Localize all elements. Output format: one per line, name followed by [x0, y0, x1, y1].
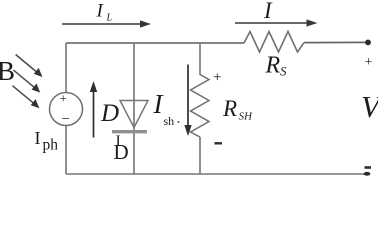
arrow: I_L (top left)	[62, 20, 151, 27]
svg-text:L: L	[106, 13, 113, 24]
label - at negative terminal	[365, 166, 372, 169]
label I_L	[96, 1, 113, 24]
label I_sh	[153, 89, 180, 128]
svg-text:D: D	[114, 140, 129, 164]
wire: top-right segment from Rs to positive terminal	[304, 41, 367, 43]
resistor R_SH zigzag	[191, 75, 210, 138]
wire: top horizontal bus from node A to series resistor	[66, 42, 244, 44]
current source I_ph circle	[50, 91, 83, 128]
arrow: light ray 3	[13, 86, 40, 109]
arrow: current-source direction (up)	[90, 81, 97, 138]
label B (irradiance)	[0, 56, 15, 86]
svg-text:+: +	[60, 91, 67, 106]
label R_SH	[222, 96, 253, 123]
wire: left branch lower segment	[65, 126, 67, 175]
resistor Rs zigzag	[244, 32, 304, 53]
label V (output voltage)	[361, 89, 378, 124]
wire: bottom return bus	[66, 173, 365, 175]
label I (output current)	[263, 0, 273, 23]
arrow: I_sh current (down)	[184, 65, 191, 137]
svg-text:+: +	[365, 55, 373, 70]
svg-text:V: V	[361, 89, 378, 124]
svg-text:B: B	[0, 56, 15, 86]
arrow: light ray 1	[16, 55, 43, 78]
svg-text:+: +	[213, 70, 221, 86]
arrow: light ray 2	[13, 70, 40, 93]
arrow: I (top right)	[235, 19, 318, 26]
svg-text:D: D	[100, 100, 119, 127]
wire: diode branch vertical (through)	[133, 43, 135, 174]
label I_ph	[35, 128, 59, 154]
wire: shunt branch lower segment	[199, 137, 201, 174]
wire: shunt branch upper segment	[199, 43, 201, 75]
svg-text:S: S	[280, 64, 287, 79]
diode D cathode bar	[112, 130, 147, 133]
svg-text:I: I	[96, 1, 105, 22]
label I_D	[114, 133, 129, 164]
diode D triangle	[120, 101, 148, 128]
svg-text:I: I	[35, 128, 41, 148]
node: positive output terminal dot	[365, 40, 371, 46]
label + at positive terminal	[365, 55, 373, 70]
label + at R_SH top	[213, 70, 221, 86]
label R_s	[265, 53, 288, 79]
label D (diode)	[100, 100, 119, 127]
svg-text:I: I	[263, 0, 273, 23]
svg-text:R: R	[222, 96, 237, 121]
label - at R_SH bottom	[215, 142, 223, 144]
wire: left branch upper segment	[65, 43, 67, 93]
node: negative terminal end mark	[364, 172, 371, 176]
svg-text:−: −	[62, 112, 70, 128]
svg-text:SH: SH	[239, 111, 254, 123]
svg-text:sh: sh	[164, 114, 175, 128]
svg-text:ph: ph	[43, 137, 59, 154]
svg-text:R: R	[265, 53, 281, 79]
